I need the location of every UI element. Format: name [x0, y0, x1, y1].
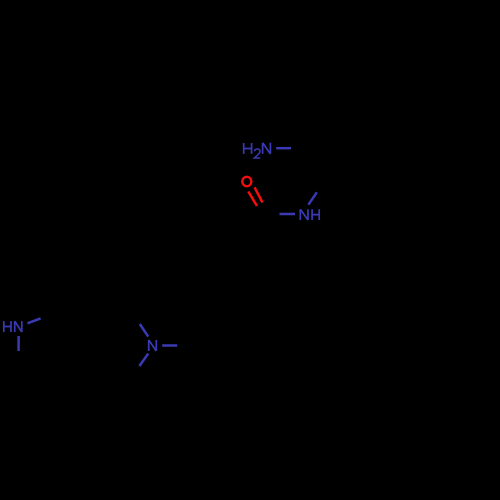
bond from amine N to CH2 (half-bond): [276, 147, 291, 150]
secondary amine label HN : letter N: [15, 321, 22, 332]
bond carbonyl C to amide N (half-bond): [280, 213, 296, 216]
amide label NH : letter H: [312, 209, 319, 220]
bond HN to ring CH2 (up-right half-bond): [28, 318, 41, 323]
primary amine label H2N : subscript 2: [254, 149, 260, 158]
bond spiro N to chain CH2 (right half-bond): [162, 344, 177, 347]
C=O double bond half, left line: [248, 192, 257, 207]
bond spiro N to ring CH2 (up-left half-bond): [140, 324, 148, 337]
bond HN to ring CH2 (down half-bond): [17, 336, 20, 351]
secondary amine label HN : letter H: [4, 321, 11, 332]
spiro tertiary amine label N: [149, 340, 157, 351]
primary amine label H2N : letter N: [263, 143, 271, 154]
bond spiro N to ring CH2 (down-left half-bond): [139, 354, 148, 366]
primary amine label H2N : letter H: [244, 143, 252, 154]
bond amide N to CH (half-bond up-right): [308, 192, 316, 204]
amide label NH : letter N: [300, 209, 308, 220]
carbonyl oxygen O: [242, 177, 251, 187]
C=O double bond half, right line: [255, 187, 263, 202]
